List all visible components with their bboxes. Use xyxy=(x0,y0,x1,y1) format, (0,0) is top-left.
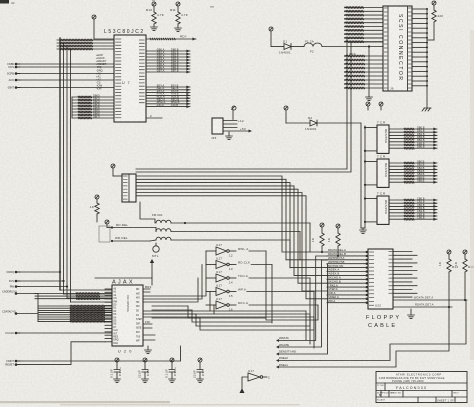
wires floppy right pins xyxy=(393,252,417,298)
wires RP3 outputs xyxy=(389,125,437,149)
wire xyxy=(60,290,112,302)
bus wires CDB upper to U7 xyxy=(57,39,114,50)
bus CDATA(7-0) xyxy=(2,305,112,323)
wires J6 right pins to ground bus xyxy=(412,8,428,108)
resistor pack RP4 xyxy=(364,155,389,188)
wire xyxy=(364,126,366,228)
node DENSITY/HD xyxy=(276,264,328,356)
ground J15 xyxy=(226,132,233,140)
power flag +5V to U7 xyxy=(92,15,114,39)
buffer U17B xyxy=(206,257,272,272)
ground floppy xyxy=(408,309,415,319)
buffer U17F spare xyxy=(240,369,271,393)
wire beads vertical drops xyxy=(290,223,310,268)
wire xyxy=(16,63,114,65)
bus wires CD data to U7 lower xyxy=(72,94,114,120)
resistor pack RP3 xyxy=(364,121,389,154)
node FDINT xyxy=(6,359,20,363)
wire xyxy=(16,332,112,334)
node FCCLK xyxy=(5,331,20,335)
diode D1 1N4001 xyxy=(271,40,304,55)
capacitor C17 xyxy=(193,358,206,383)
wire xyxy=(16,280,64,282)
power flag J15 xyxy=(232,106,236,120)
wire junction xyxy=(368,45,370,47)
node FDB0 xyxy=(7,62,20,66)
IC U7 label L53C80JC2 xyxy=(104,29,145,35)
bus CADDR(2-0) xyxy=(2,290,112,300)
node RESET xyxy=(5,363,20,367)
connector J6 SCSI xyxy=(383,6,412,91)
title block xyxy=(376,372,467,403)
resistor RP1 pullup xyxy=(146,2,164,31)
node RW xyxy=(10,285,20,289)
wire xyxy=(16,73,114,75)
wires gate outputs drop xyxy=(266,251,318,330)
capacitor C14 xyxy=(110,358,123,383)
node FCS xyxy=(9,279,20,283)
power arrow U20 xyxy=(95,259,154,285)
connector J15 xyxy=(211,118,252,140)
ground J6 left xyxy=(366,47,373,101)
wire xyxy=(16,271,60,273)
wires J6 left upper pins xyxy=(344,6,383,43)
wires RP5 outputs xyxy=(389,196,437,220)
wire xyxy=(70,49,72,302)
wire xyxy=(71,97,73,118)
scan artifact corner mark xyxy=(0,0,9,4)
node FDRQ xyxy=(7,270,20,274)
node DINT xyxy=(7,86,20,90)
ferrite bead FB3 xyxy=(156,237,290,240)
wires floppy left pins xyxy=(327,248,368,304)
wire xyxy=(16,66,114,68)
resistor R14 pullup xyxy=(438,250,458,307)
wire nested routing below gates xyxy=(188,306,314,330)
buffer U17C xyxy=(206,270,310,285)
diode D2 1N4001 xyxy=(286,116,361,131)
node SCPB xyxy=(7,72,20,76)
wires RP4 outputs xyxy=(389,159,437,183)
wire U7 pin 1 net xyxy=(146,35,196,41)
connector J10 xyxy=(122,174,136,202)
power flag FB xyxy=(105,220,112,228)
capacitor C15 xyxy=(138,358,151,383)
node ACK xyxy=(9,78,20,82)
wire termpower vertical xyxy=(360,123,362,228)
wires U20 right pins xyxy=(143,285,314,348)
node DSEL0 xyxy=(276,300,466,362)
transistor Q1 xyxy=(152,243,159,258)
power flag D2 xyxy=(284,106,288,123)
resistor R7 pullup xyxy=(311,223,324,253)
resistor R8 pullup xyxy=(327,224,340,257)
ferrite bead FB2 xyxy=(156,229,300,232)
wire xyxy=(16,346,181,361)
resistor RP2 pullup xyxy=(170,2,188,32)
wires J10 to right bundle xyxy=(136,176,327,299)
wire bus feed xyxy=(16,294,38,322)
power flag D1 xyxy=(269,27,273,47)
chassis ground J6 right xyxy=(422,108,431,111)
connector U22 floppy xyxy=(368,249,393,309)
ground resistor packs xyxy=(360,228,367,234)
IC U20 body xyxy=(112,285,143,354)
IC U7 body xyxy=(114,35,146,122)
node DCS xyxy=(9,65,20,69)
wire xyxy=(16,79,114,81)
ferrite bead FB1 xyxy=(140,202,310,223)
wire xyxy=(16,286,67,288)
power flag J10 xyxy=(111,164,122,176)
wire RDATA.DET.A xyxy=(393,303,452,309)
fuse F1 xyxy=(304,40,383,54)
wire xyxy=(16,87,114,89)
resistor R15 pullup xyxy=(454,250,474,300)
resistor R9 xyxy=(90,195,99,222)
wires U7 right group 1 xyxy=(146,47,190,73)
scan artifact bottom smudge xyxy=(0,401,170,403)
wire vertical bus xyxy=(59,38,61,290)
wire xyxy=(63,43,65,294)
wire xyxy=(16,342,105,365)
node DSEL1 xyxy=(276,307,449,369)
wires gate inputs from U20 xyxy=(198,251,214,314)
resistor R12 terminator power xyxy=(427,1,443,40)
node WDATA xyxy=(276,256,327,342)
wire U7 bottom stub xyxy=(146,117,162,119)
note box xyxy=(99,226,110,242)
wires U20 left stubs xyxy=(105,289,112,342)
buffer U17D xyxy=(206,284,314,299)
resistor pack RP5 xyxy=(364,192,389,225)
wires J6 left lower pins xyxy=(344,55,383,89)
capacitor C16 xyxy=(165,358,178,383)
node WGATE xyxy=(276,260,327,349)
wire xyxy=(66,46,68,298)
wires U7 right group 2 xyxy=(146,83,190,108)
buffer U17E xyxy=(206,297,318,312)
labels U7 left pins xyxy=(96,53,107,91)
node RD.DEL xyxy=(111,223,156,232)
wire WDATA.DET.A xyxy=(393,296,467,302)
wire TPWR pair xyxy=(136,38,383,172)
power flags packs xyxy=(366,102,383,110)
ground U20 xyxy=(145,346,152,354)
node WD.DEL xyxy=(111,236,156,242)
buffer U17A xyxy=(206,243,266,258)
